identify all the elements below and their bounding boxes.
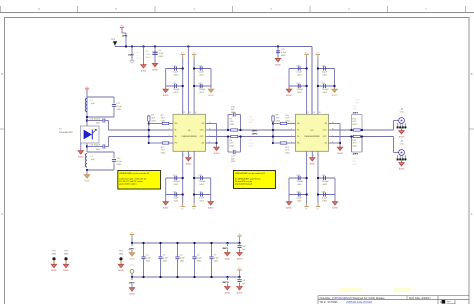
ground U1 right decoupling: [208, 88, 214, 97]
svg-text:VS–: VS–: [181, 209, 184, 211]
svg-text:TP5: TP5: [353, 106, 356, 108]
bank bottom bus wire: [132, 276, 240, 278]
svg-text:JMP6: JMP6: [352, 154, 358, 156]
svg-text:Mod. Date: 4/3/2017: Mod. Date: 4/3/2017: [409, 297, 431, 300]
svg-text:AGND: AGND: [186, 163, 192, 166]
power flag VS+ (U2 left pin): [304, 53, 308, 115]
U2 lower decoupling stub wires: [289, 178, 335, 201]
svg-text:JMP3: JMP3: [252, 130, 258, 132]
svg-text:OUT+: OUT+: [200, 130, 204, 132]
ground U1 lower left: [163, 201, 169, 210]
svg-text:2200pF: 2200pF: [173, 181, 181, 183]
bank top bus wire: [132, 242, 240, 244]
svg-text:0.1µF: 0.1µF: [173, 72, 179, 74]
jumper JMP4: [252, 133, 258, 136]
output jumper loop lower JMP6: [352, 137, 363, 166]
ground U1 left decoupling: [163, 88, 169, 97]
svg-text:AGND: AGND: [332, 94, 338, 97]
title block: [318, 288, 469, 304]
svg-text:FB+: FB+: [297, 123, 300, 125]
svg-text:0.1µF: 0.1µF: [322, 198, 328, 200]
capacitor C14 2200pF: [173, 175, 181, 186]
svg-text:OUT–: OUT–: [323, 136, 327, 138]
svg-text:IN–: IN–: [175, 130, 178, 132]
sheet outer border line: [0, 12, 474, 14]
svg-text:TP3: TP3: [64, 251, 67, 253]
svg-text:LMH5401 EVAL BOARD: LMH5401 EVAL BOARD: [346, 301, 372, 304]
power flag VS- (U2 bottom right): [316, 157, 320, 211]
svg-text:GND: GND: [119, 254, 124, 256]
svg-text:populated/changed.: populated/changed.: [235, 183, 253, 186]
svg-text:AGND: AGND: [63, 269, 69, 272]
svg-text:14: 14: [195, 112, 197, 114]
svg-text:C5: C5: [197, 255, 199, 257]
U2 decoupling stub wires: [289, 69, 335, 89]
U1 decoupling stub wires: [166, 69, 211, 89]
power flag VS+ (U1 right pin): [192, 53, 196, 115]
capacitor C2 0.1uF bank: [141, 255, 151, 263]
svg-text:C41: C41: [242, 280, 245, 282]
capacitor C36 2200pF: [296, 175, 304, 186]
svg-text:LMH5401IRMSR: LMH5401IRMSR: [304, 136, 320, 138]
svg-text:0.1µF: 0.1µF: [297, 198, 303, 200]
note box 2: [234, 171, 276, 189]
svg-text:C4: C4: [180, 255, 182, 257]
capacitor C37 0.1uF: [296, 192, 302, 203]
svg-text:VS–: VS–: [305, 209, 308, 211]
svg-text:3: 3: [291, 135, 292, 137]
test point TP7 bank left: [130, 265, 134, 277]
rail junction dots: [125, 45, 279, 47]
svg-text:12: 12: [183, 112, 185, 114]
junction dots U2 input: [272, 122, 274, 144]
power flag VS+ input: [120, 26, 126, 47]
resistor R6 feedback lower: [149, 142, 169, 155]
svg-text:2200pF: 2200pF: [297, 181, 305, 183]
DNI test point label upper: [356, 100, 360, 105]
svg-text:C40: C40: [242, 246, 245, 248]
svg-text:2: 2: [169, 128, 170, 130]
svg-text:VS–: VS–: [192, 209, 195, 211]
svg-text:Designed For: Public Release: Designed For: Public Release: [353, 297, 385, 300]
wire U1 CM jog: [210, 124, 218, 147]
svg-text:0.1µF: 0.1µF: [180, 258, 186, 260]
capacitor C4 0.1uF bank: [175, 255, 185, 263]
svg-text:LMH5401SEP can be used for U1: LMH5401SEP can be used for U1: [119, 173, 150, 175]
svg-text:0.1µF: 0.1µF: [173, 198, 179, 200]
jumper JMP3: [252, 130, 258, 132]
svg-text:TP3: TP3: [356, 100, 359, 102]
svg-text:2200pF: 2200pF: [297, 89, 305, 91]
svg-text:IN–: IN–: [297, 130, 300, 132]
resistor R14 series output: [352, 135, 360, 147]
svg-text:JMP5: JMP5: [352, 112, 358, 114]
U1 supply center line: [187, 47, 189, 115]
svg-text:IN+: IN+: [175, 136, 178, 138]
svg-text:0.1µF: 0.1µF: [197, 258, 203, 260]
border row ticks and labels: [0, 72, 474, 216]
svg-text:0402: 0402: [231, 112, 235, 114]
svg-text:2200pF: 2200pF: [199, 181, 207, 183]
svg-text:PS100-6B-CER2: PS100-6B-CER2: [59, 132, 73, 134]
svg-text:C6: C6: [214, 255, 216, 257]
capacitor C6 0.1uF bank: [209, 255, 219, 263]
svg-text:C2: C2: [146, 255, 148, 257]
svg-text:DNI: DNI: [353, 109, 357, 111]
power flag VS- bank right: [237, 268, 241, 277]
svg-text:Orderable:: Orderable:: [320, 297, 332, 300]
svg-text:2200pF: 2200pF: [199, 89, 207, 91]
jumper JMP1 label: [122, 36, 128, 38]
capacitor C39 0.1uF: [322, 192, 328, 203]
svg-text:4.7µF: 4.7µF: [281, 52, 287, 54]
jumper JMP7 bank top left: [129, 242, 136, 261]
connector J4 SMA output-: [397, 140, 407, 170]
main VS+ rail wire: [115, 47, 312, 115]
svg-text:0402: 0402: [352, 164, 356, 166]
ground U2 lower left: [286, 201, 292, 210]
svg-text:0402: 0402: [163, 261, 167, 263]
L2 bypass loop with capacitor C20: [87, 152, 123, 170]
svg-text:AGND: AGND: [78, 156, 84, 159]
bank column wires: [142, 242, 212, 278]
coupling capacitor C18 1000pF: [86, 118, 109, 130]
svg-text:0.1µF: 0.1µF: [199, 198, 205, 200]
coupling capacitor C19 1000pF: [86, 137, 109, 152]
svg-text:IN+: IN+: [297, 136, 300, 138]
svg-text:0.1µF: 0.1µF: [297, 72, 303, 74]
resistor R3 termination: [148, 115, 157, 143]
op-amp U2 LMH5401IRMSR: [291, 112, 334, 157]
resistor R9 termination: [272, 115, 281, 143]
svg-text:TP4: TP4: [119, 251, 122, 253]
svg-text:LMH5401SEPEVM: LMH5401SEPEVM: [332, 297, 352, 300]
wire OUT- U1 to U2: [210, 136, 291, 138]
photodiode D1: [59, 126, 99, 143]
svg-text:VS–: VS–: [316, 209, 319, 211]
svg-text:C28: C28: [249, 117, 252, 119]
U1 lower decoupling stub wires: [166, 178, 211, 201]
junction dots interstage loop: [227, 129, 242, 138]
svg-text:0402: 0402: [249, 146, 253, 148]
capacitor C15 0.1uF: [173, 66, 179, 77]
capacitor C23 2200pF: [199, 175, 207, 186]
wire U2 CM jog: [333, 124, 341, 147]
svg-text:FB+: FB+: [175, 123, 178, 125]
capacitor C3 0.1uF bank: [158, 255, 168, 263]
svg-text:0.1µF: 0.1µF: [322, 72, 328, 74]
capacitor C1 47uF: [152, 47, 164, 72]
svg-text:1: 1: [291, 122, 292, 124]
inductor L2: [85, 153, 95, 167]
svg-text:2200pF: 2200pF: [322, 89, 330, 91]
ground U1 CM lower: [210, 143, 220, 155]
svg-text:AGND: AGND: [237, 291, 243, 294]
svg-text:0.1µF: 0.1µF: [214, 258, 220, 260]
output jumper loop upper JMP5: [352, 106, 363, 130]
svg-text:1.00k: 1.00k: [146, 54, 151, 56]
ground U2 lower right: [332, 201, 338, 210]
capacitor C5 0.1uF bank: [192, 255, 202, 263]
ground photodiode anode: [78, 143, 84, 159]
svg-text:AGND: AGND: [84, 180, 90, 183]
junction dots output loop: [350, 129, 363, 138]
svg-text:AGND: AGND: [118, 269, 124, 272]
jumper JMP10 bank bottom right: [222, 276, 230, 295]
svg-text:AGND: AGND: [225, 291, 231, 294]
svg-text:R1: R1: [146, 51, 148, 53]
svg-text:AGND: AGND: [208, 94, 214, 97]
wire IN- to U1: [109, 136, 169, 138]
svg-text:0402: 0402: [214, 261, 218, 263]
svg-text:1µH: 1µH: [91, 159, 95, 161]
resistor R7 24.9 series: [230, 118, 238, 131]
svg-text:AGND: AGND: [152, 68, 158, 71]
jumper JMP8 bank bottom left: [129, 276, 136, 296]
svg-text:OUT+: OUT+: [323, 130, 327, 132]
svg-text:TP7: TP7: [130, 265, 133, 267]
svg-text:6: 6: [189, 155, 190, 157]
svg-text:B: B: [1, 72, 3, 76]
connector J3 SMA output+: [397, 108, 407, 138]
junction dots U1 lower decoupling: [182, 177, 196, 196]
svg-text:C29: C29: [249, 140, 252, 142]
svg-text:LMH5401IRMSR: LMH5401IRMSR: [182, 136, 198, 138]
svg-text:12: 12: [307, 112, 309, 114]
capacitor C30 0.1uF: [296, 66, 302, 77]
svg-text:AGND: AGND: [237, 257, 243, 260]
interstage filter loop upper capacitor C26 3pF: [228, 106, 241, 130]
capacitor C38 2200pF: [322, 175, 330, 186]
resistor R12 feedback lower: [273, 142, 291, 155]
DNI capacitor C28 label: [249, 117, 256, 125]
svg-text:3: 3: [169, 135, 170, 137]
svg-text:TP2: TP2: [52, 251, 55, 253]
svg-text:0.1µF: 0.1µF: [146, 258, 152, 260]
svg-text:FB–: FB–: [297, 143, 300, 145]
svg-text:A: A: [471, 212, 473, 216]
capacitor C34 0.1uF: [322, 66, 328, 77]
svg-text:2: 2: [291, 128, 292, 130]
junction dots U2 lower decoupling: [305, 177, 319, 196]
svg-text:B: B: [471, 72, 473, 76]
power flag VS- (U1 bottom right): [192, 157, 196, 211]
svg-text:AGND: AGND: [225, 257, 231, 260]
svg-text:7: 7: [195, 155, 196, 157]
capacitor C35 2200pF: [322, 83, 330, 94]
svg-text:13: 13: [189, 112, 191, 114]
resistor R1 (DNI) to ground: [141, 47, 151, 73]
svg-text:0.1µF: 0.1µF: [199, 72, 205, 74]
svg-text:C3: C3: [163, 255, 165, 257]
svg-text:TP6: TP6: [352, 158, 355, 160]
jumper JMP9 bank top right: [222, 242, 230, 261]
svg-text:0.01µF: 0.01µF: [249, 119, 256, 121]
svg-text:AGND: AGND: [214, 152, 220, 155]
power flag VS+ (U1 left pin): [181, 53, 185, 115]
capacitor C24 0.1uF: [199, 192, 205, 203]
ground U2 right decoupling: [332, 88, 338, 97]
resistor R11 feedback upper: [273, 115, 291, 125]
test point TP4 GND: [118, 251, 124, 273]
power flag VS- (U2 bottom left): [304, 157, 308, 211]
wire OUT- U2 to SMA: [333, 137, 399, 153]
svg-text:JMP10: JMP10: [222, 282, 229, 284]
svg-text:5: 5: [307, 155, 308, 157]
svg-text:FB–: FB–: [175, 143, 178, 145]
svg-text:If alternate gain needed for U: If alternate gain needed for U1,: [119, 177, 147, 180]
power flag VS+ bank right: [237, 234, 241, 243]
DNI capacitor C29 label: [249, 140, 256, 148]
svg-text:AGND: AGND: [310, 163, 316, 166]
svg-text:AGND: AGND: [208, 207, 214, 210]
svg-text:OUT–: OUT–: [200, 136, 204, 138]
ground U1 thermal pad: [186, 157, 192, 166]
svg-text:13: 13: [313, 112, 315, 114]
wire OUT+ U2 to SMA: [333, 121, 399, 131]
svg-text:JMP2: JMP2: [128, 54, 134, 56]
test point TP2 GND: [51, 251, 57, 273]
svg-text:14: 14: [319, 112, 321, 114]
svg-text:0.1µF: 0.1µF: [163, 258, 169, 260]
svg-text:47µF: 47µF: [159, 53, 164, 55]
svg-text:AGND: AGND: [275, 63, 281, 66]
capacitor C31 2200pF: [296, 83, 304, 94]
capacitor C16 0.1uF: [173, 192, 179, 203]
ground U1 lower right: [208, 201, 214, 210]
svg-text:AGND: AGND: [399, 136, 405, 139]
svg-text:2200pF: 2200pF: [322, 181, 330, 183]
svg-text:0402: 0402: [96, 123, 100, 125]
svg-text:AGND: AGND: [51, 269, 57, 272]
note box 1: [118, 171, 161, 190]
svg-text:0.1µF: 0.1µF: [117, 106, 123, 108]
svg-text:0402: 0402: [197, 261, 201, 263]
input chain vertical wire: [86, 92, 88, 152]
capacitor C41 1uF: [237, 276, 246, 295]
interstage filter loop lower capacitor C27 3pF: [228, 137, 241, 164]
svg-text:DNI: DNI: [356, 102, 360, 104]
wire OUT+ U1 to U2: [210, 129, 291, 131]
svg-text:1µH: 1µH: [91, 103, 95, 105]
resistor R13 series output: [352, 118, 360, 131]
svg-text:0402: 0402: [180, 261, 184, 263]
svg-text:AGND: AGND: [399, 168, 405, 171]
power flag VS+ (U2 right pin): [316, 53, 320, 115]
resistor R2 feedback upper: [149, 115, 169, 125]
ground U2 left decoupling: [286, 88, 292, 97]
svg-text:AGND: AGND: [129, 293, 135, 296]
svg-text:AGND: AGND: [163, 207, 169, 210]
svg-text:AGND: AGND: [129, 258, 135, 261]
svg-text:GND: GND: [52, 254, 57, 256]
jumper JMP2 to ground: [128, 47, 141, 64]
svg-text:C18 1000pF: C18 1000pF: [90, 119, 101, 121]
svg-text:TID #:: TID #:: [320, 301, 327, 304]
svg-text:AGND: AGND: [163, 94, 169, 97]
svg-text:AGND: AGND: [286, 94, 292, 97]
junction dots U1 decoupling: [182, 67, 196, 87]
svg-text:2200pF: 2200pF: [173, 89, 181, 91]
capacitor C22 2200pF: [198, 83, 206, 94]
svg-text:AGND: AGND: [337, 152, 343, 155]
svg-text:0402: 0402: [137, 58, 141, 60]
power flag VS- (U1 bottom left): [181, 157, 185, 211]
power flag VS+ bank left: [130, 233, 134, 244]
L1 bypass loop with capacitor C17: [87, 97, 123, 117]
svg-text:LMH5401SEP can be used for U2: LMH5401SEP can be used for U2: [235, 173, 266, 175]
resistor R8 24.9 series: [230, 135, 238, 147]
capacitor C25 4.7uF: [275, 47, 287, 67]
svg-text:AGND: AGND: [286, 207, 292, 210]
junction dots U1 input: [148, 122, 150, 144]
junction dots U2 decoupling: [305, 67, 335, 87]
inductor L1: [85, 98, 95, 112]
ground input chain bottom: [84, 169, 90, 183]
capacitor C21 0.1uF: [198, 66, 204, 77]
svg-text:AGND: AGND: [141, 70, 147, 73]
wire IN+ to U1: [109, 129, 169, 131]
svg-text:populated/changed.: populated/changed.: [119, 183, 137, 186]
svg-text:A: A: [1, 212, 3, 216]
capacitor C13 2200pF: [173, 83, 181, 94]
ground U2 CM lower: [333, 143, 343, 155]
svg-text:4: 4: [291, 141, 292, 143]
svg-text:0603: 0603: [146, 57, 150, 59]
svg-text:0402: 0402: [146, 261, 150, 263]
svg-text:AGND: AGND: [332, 207, 338, 210]
power flag VCC photodiode bias: [85, 87, 89, 92]
test point TP3 GND: [63, 251, 69, 273]
svg-text:0.01µF: 0.01µF: [249, 143, 256, 145]
op-amp U1 LMH5401IRMSR: [169, 112, 211, 157]
border column ticks and labels: [1, 6, 466, 13]
svg-text:GND: GND: [64, 254, 69, 256]
svg-text:0402: 0402: [249, 122, 253, 124]
node junction above photodiode: [86, 116, 88, 118]
svg-text:0.1µF: 0.1µF: [117, 161, 123, 163]
svg-text:C19 1000pF: C19 1000pF: [90, 145, 101, 147]
svg-text:JMP4: JMP4: [252, 133, 258, 136]
svg-text:JMP1: JMP1: [122, 36, 128, 38]
capacitor C40 1uF: [237, 242, 246, 261]
svg-text:SC70096: SC70096: [328, 301, 339, 304]
svg-text:0402: 0402: [231, 161, 235, 163]
svg-text:DNI: DNI: [352, 161, 356, 163]
svg-text:0402: 0402: [96, 149, 100, 151]
ground U2 thermal pad: [310, 157, 316, 166]
test point TP1: [111, 39, 117, 47]
